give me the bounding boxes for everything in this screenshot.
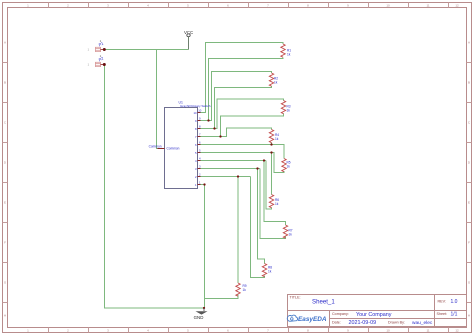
svg-text:4: 4: [195, 159, 197, 163]
svg-text:GND: GND: [194, 315, 204, 320]
svg-text:1k: 1k: [274, 81, 278, 85]
svg-text:Grayhill Rotary Switch: Grayhill Rotary Switch: [180, 104, 211, 108]
svg-text:1k: 1k: [287, 165, 291, 169]
svg-text:E: E: [4, 200, 6, 204]
svg-text:A: A: [468, 40, 470, 44]
svg-text:1: 1: [199, 180, 201, 184]
svg-text:10: 10: [198, 108, 202, 112]
svg-text:Sheet_1: Sheet_1: [312, 298, 335, 305]
svg-text:wau_elec: wau_elec: [412, 320, 433, 326]
svg-text:Common: Common: [167, 146, 180, 150]
svg-text:6: 6: [199, 140, 201, 144]
svg-text:7: 7: [199, 132, 201, 136]
svg-text:1k: 1k: [287, 53, 291, 57]
svg-text:5: 5: [195, 151, 197, 155]
svg-text:10: 10: [193, 111, 197, 115]
svg-text:2: 2: [195, 175, 197, 179]
svg-text:G: G: [468, 280, 471, 284]
svg-text:11: 11: [426, 329, 429, 333]
svg-text:4: 4: [199, 156, 201, 160]
svg-text:2: 2: [199, 172, 201, 176]
svg-text:1k: 1k: [275, 137, 279, 141]
svg-text:G: G: [4, 280, 7, 284]
svg-text:Company:: Company:: [332, 312, 349, 316]
svg-text:REV:: REV:: [438, 299, 446, 303]
svg-text:7: 7: [195, 135, 197, 139]
svg-text:E: E: [468, 200, 470, 204]
svg-text:9: 9: [199, 116, 201, 120]
svg-text:C: C: [468, 120, 471, 124]
svg-text:9: 9: [195, 119, 197, 123]
svg-text:B: B: [4, 80, 6, 84]
svg-text:1/1: 1/1: [451, 311, 458, 317]
svg-text:1k: 1k: [287, 109, 291, 113]
svg-text:6: 6: [195, 143, 197, 147]
svg-text:H: H: [468, 313, 470, 317]
svg-text:Date:: Date:: [332, 320, 341, 324]
svg-text:8: 8: [195, 127, 197, 131]
svg-text:1k: 1k: [243, 288, 247, 292]
svg-text:3: 3: [199, 164, 201, 168]
svg-text:H: H: [4, 313, 6, 317]
svg-text:VCC: VCC: [184, 30, 193, 35]
svg-text:D: D: [468, 160, 471, 164]
svg-text:Common: Common: [149, 144, 162, 148]
svg-text:1: 1: [88, 63, 90, 67]
svg-text:1k: 1k: [289, 233, 293, 237]
svg-text:1: 1: [88, 48, 90, 52]
svg-text:8: 8: [199, 124, 201, 128]
svg-text:11: 11: [426, 4, 429, 8]
svg-text:1k: 1k: [275, 202, 279, 206]
svg-text:EasyEDA: EasyEDA: [298, 316, 327, 323]
svg-text:Sheet:: Sheet:: [437, 312, 448, 316]
svg-text:12: 12: [455, 329, 459, 333]
svg-text:F: F: [468, 240, 470, 244]
svg-text:2021-09-09: 2021-09-09: [349, 320, 377, 326]
svg-text:C: C: [4, 120, 7, 124]
svg-text:1k: 1k: [268, 270, 272, 274]
svg-text:10: 10: [386, 4, 390, 8]
svg-text:12: 12: [455, 4, 459, 8]
svg-text:1: 1: [195, 183, 197, 187]
svg-text:F: F: [4, 240, 6, 244]
svg-text:A: A: [4, 40, 6, 44]
svg-text:Drawn By:: Drawn By:: [388, 320, 405, 324]
svg-text:1.0: 1.0: [451, 299, 458, 305]
svg-text:10: 10: [386, 329, 390, 333]
svg-text:TITLE:: TITLE:: [290, 296, 301, 300]
svg-text:5: 5: [199, 148, 201, 152]
svg-text:3: 3: [195, 167, 197, 171]
svg-text:B: B: [468, 80, 470, 84]
svg-text:D: D: [4, 160, 7, 164]
svg-text:Your Company: Your Company: [356, 312, 392, 318]
